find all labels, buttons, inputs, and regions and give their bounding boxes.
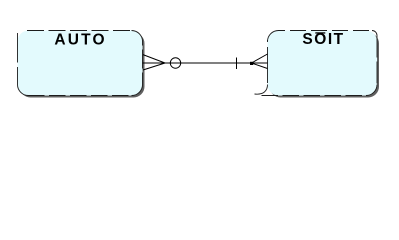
svg-text:SOIT: SOIT — [302, 31, 343, 48]
